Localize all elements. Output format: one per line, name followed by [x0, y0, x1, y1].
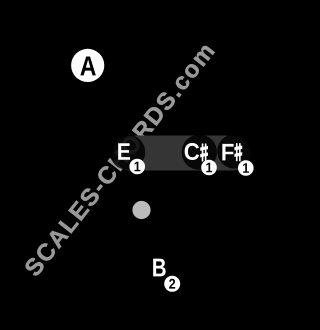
note label C: [185, 143, 200, 160]
watermark seen through dots: [23, 42, 215, 278]
note label E: [118, 143, 130, 160]
finger number badge 1 (F#): [238, 160, 254, 176]
sharp sign of F#: [234, 143, 242, 161]
fret marker dot: [132, 201, 150, 219]
finger number badge 1 (E): [129, 159, 145, 175]
note label B: [153, 259, 165, 277]
barre bar fret 1: [113, 136, 251, 171]
watermark SCALES-CHORDS.com: [23, 42, 215, 278]
finger dot C#: [182, 135, 217, 170]
letter A: [80, 57, 95, 76]
finger number badge 1 (C#): [201, 160, 217, 176]
finger dot F#: [217, 134, 251, 168]
note label F: [222, 144, 233, 161]
open string badge A: [71, 49, 104, 82]
sharp sign of C#: [200, 144, 208, 162]
finger number badge 2 (B): [164, 276, 180, 292]
finger dot E: [110, 135, 145, 170]
